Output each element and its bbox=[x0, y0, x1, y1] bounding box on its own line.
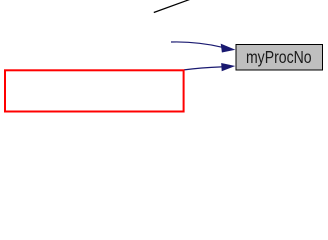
svg-text:myProcNo: myProcNo bbox=[246, 48, 312, 67]
